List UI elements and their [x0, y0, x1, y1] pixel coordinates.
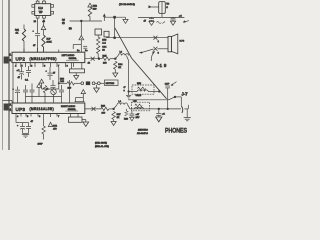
capacitor C52b	[171, 17, 176, 21]
pin pads U51 bottom	[34, 16, 46, 26]
wire page left border inner	[8, 0, 10, 150]
svg-text:(M5218AL5B): (M5218AL5B)	[30, 107, 55, 111]
capacitor C53	[25, 66, 31, 82]
svg-text:CAP: CAP	[165, 83, 170, 86]
pin UP2 left 2	[9, 59, 12, 61]
wire to contact	[74, 82, 81, 84]
resistor R26	[101, 106, 109, 115]
svg-text:100K: 100K	[47, 42, 53, 44]
net label TO DB arrow	[119, 4, 159, 9]
wire jack ring contact	[139, 49, 168, 54]
wire arrow up at end of net A	[103, 13, 106, 21]
ground bars left channel	[126, 95, 131, 98]
svg-text:6-P8: 6-P8	[180, 41, 185, 43]
part number note bottom	[137, 129, 148, 135]
ground under feedback box	[74, 73, 79, 80]
resistor R27 1K	[112, 112, 121, 122]
capacitor C72	[26, 121, 34, 134]
node junction dot C	[113, 36, 116, 39]
inductor block dashed left channel	[132, 83, 154, 94]
wire to node R2	[109, 108, 114, 110]
wire between contacts	[95, 82, 97, 84]
capacitor C54 electrolytic	[46, 67, 57, 80]
pin pads U51 right	[51, 5, 54, 14]
inductor L3	[115, 52, 128, 61]
svg-text:J-1 9: J-1 9	[155, 63, 167, 68]
switch contact circle 3	[97, 82, 100, 85]
wire phones line top	[106, 37, 168, 39]
capacitor C65 above UP3	[59, 85, 64, 97]
pin UP3 left 1	[9, 104, 12, 106]
pin pads U51 left	[32, 5, 35, 14]
relay K41 cylinder	[159, 2, 170, 18]
capacitor C29	[129, 111, 140, 119]
power arrow +B2	[88, 3, 92, 7]
jack contact X top	[153, 36, 157, 40]
jack contact X ring	[153, 47, 157, 51]
svg-text:LEFT AUDIO: LEFT AUDIO	[62, 54, 75, 57]
resistor R24 1K	[114, 61, 123, 73]
transistor Q61	[51, 88, 57, 95]
wire mute row start	[59, 82, 67, 84]
node junction dot P	[158, 108, 160, 110]
feedback box under UP2	[70, 63, 85, 73]
inductor block dashed right channel	[132, 101, 150, 111]
svg-text:+C: +C	[162, 114, 165, 116]
resistor label cluster	[60, 79, 65, 84]
svg-text:100P: 100P	[38, 144, 44, 146]
capacitor CAP right	[165, 82, 177, 88]
jumper staple	[73, 45, 81, 53]
pin UP2 top stubs	[24, 47, 59, 53]
svg-text:MUTING: MUTING	[106, 83, 115, 85]
ground bars under jack	[184, 118, 191, 121]
ground chassis right of net A	[123, 17, 128, 23]
pin pads U51 top	[36, 0, 45, 4]
node junction dot A	[80, 20, 82, 22]
wire phones bottom rail	[130, 108, 181, 110]
wire net A horizontal	[70, 20, 103, 22]
capacitor C55	[51, 80, 56, 87]
resistor R53	[97, 35, 108, 45]
jack speaker symbol	[168, 34, 178, 54]
switch contact circle 2	[92, 82, 95, 85]
wire horizontal under UP2	[42, 88, 59, 90]
node A label	[62, 20, 66, 25]
wire left channel mid	[128, 90, 161, 92]
capacitor C63 above UP3	[23, 85, 28, 97]
net label MUTING box	[105, 80, 119, 86]
resistor R61	[15, 25, 26, 53]
ground under C52b	[170, 21, 175, 25]
wire top right segment	[105, 16, 126, 18]
pin UP3 left 2	[9, 109, 12, 111]
wire vertical from dot B	[114, 17, 116, 38]
switch contact circle 1	[81, 82, 84, 85]
resistor R28	[124, 109, 129, 121]
arrow to jack contact	[151, 51, 155, 61]
IC U51 top-left	[35, 4, 51, 16]
IC UP3	[12, 103, 85, 114]
svg-text:MEGURO: MEGURO	[138, 129, 148, 131]
svg-text:RIGHT AUDIO: RIGHT AUDIO	[61, 105, 75, 108]
capacitor C64 above UP3	[30, 84, 35, 97]
note text bottom middle	[95, 143, 109, 149]
node junction dot L2	[114, 58, 116, 60]
net label pins above UP2	[77, 50, 88, 52]
wire left channel to jack	[128, 96, 181, 106]
resistor R25	[102, 56, 110, 65]
resistor R52 220	[88, 6, 97, 21]
svg-text:(D51: R005): (D51: R005)	[95, 143, 107, 145]
wire to node L2	[110, 58, 115, 60]
resistor R57 22	[67, 82, 74, 90]
connector box A	[95, 29, 102, 35]
svg-text:(TO DB-0047-B): (TO DB-0047-B)	[119, 4, 135, 6]
svg-text:25V: 25V	[136, 117, 140, 119]
capacitor C62 above UP3	[13, 87, 21, 97]
wire UP3 output	[85, 108, 102, 110]
squiggle marks center rail	[157, 22, 166, 24]
svg-text:SIGNAL: SIGNAL	[69, 57, 78, 60]
ground right of feedback box	[82, 120, 89, 127]
capacitor C61	[33, 21, 41, 53]
svg-text:(A): (A)	[69, 27, 72, 30]
svg-text:TH: TH	[166, 3, 169, 5]
power arrow under UP2	[39, 79, 43, 89]
resistor R62 100K	[42, 35, 52, 53]
wire power rail	[138, 16, 184, 18]
svg-text:PHONES: PHONES	[165, 128, 187, 135]
ground under mute row	[94, 85, 100, 93]
wire arrow to muting label	[100, 82, 104, 84]
svg-text:DB-0047-B: DB-0047-B	[137, 132, 148, 135]
ground under C29	[130, 117, 135, 121]
ground under C30	[156, 117, 162, 122]
capacitor C30	[156, 109, 165, 117]
wire left channel down	[128, 61, 130, 95]
inductor L4	[114, 101, 130, 109]
power arrow UP3	[48, 122, 57, 130]
node junction dot L1	[98, 58, 100, 60]
capacitor C51	[144, 17, 155, 22]
svg-text:J-7: J-7	[182, 91, 189, 96]
node junction dot B	[113, 16, 116, 19]
pin stubs into UP3 top	[18, 80, 70, 103]
wire UP2 output	[85, 58, 102, 60]
jack contact X left channel	[91, 57, 95, 61]
power arrow mid	[79, 36, 84, 45]
node connector blob left lower	[4, 104, 9, 111]
svg-text:+C: +C	[17, 70, 20, 72]
resistor R65 above UP3	[43, 86, 48, 97]
ground bars under C71 C72	[22, 134, 29, 138]
svg-text:SIGNAL: SIGNAL	[68, 108, 77, 111]
relay contact block	[86, 81, 90, 85]
ground under C51	[149, 21, 154, 25]
wire bus above UP3	[26, 96, 62, 98]
svg-text:UP3: UP3	[16, 107, 26, 112]
pin UP3 bottom stubs	[16, 114, 60, 127]
svg-text:UL8: UL8	[38, 7, 43, 10]
resistor R54	[97, 46, 108, 59]
node connector blob left upper	[4, 57, 9, 64]
wire vertical left pin run	[12, 63, 14, 103]
svg-text:(4): (4)	[62, 23, 65, 25]
node junction dot jack	[167, 108, 169, 110]
arrow end of rail	[183, 20, 189, 22]
svg-text:UR14: UR14	[136, 94, 142, 97]
capacitor label right	[124, 87, 127, 92]
wire vertical from dot A down	[80, 21, 82, 36]
capacitor small by staple	[83, 46, 87, 48]
ground under R24	[113, 73, 118, 77]
svg-text:TIP: TIP	[39, 11, 43, 14]
power arrow above UP3	[37, 83, 41, 96]
wire page left border outer	[2, 0, 4, 150]
phones jack plug curve	[181, 105, 188, 118]
resistor R73	[38, 126, 46, 146]
svg-text:+C: +C	[179, 16, 182, 18]
capacitor C71	[16, 123, 29, 134]
node junction dot R2	[112, 108, 114, 110]
pin UP2 bottom stubs	[15, 63, 74, 68]
wire jack vertical	[167, 88, 169, 109]
svg-text:UP2: UP2	[16, 57, 26, 62]
power arrow +B	[41, 25, 46, 35]
pin UP2 left 1	[9, 54, 12, 56]
svg-text:BLP: BLP	[47, 39, 52, 41]
power arrow up b	[75, 90, 86, 102]
feedback box under UP3	[69, 114, 83, 123]
wire vertical under UP2 a	[58, 67, 60, 89]
jack contact X right channel	[92, 107, 96, 111]
switch box B	[104, 31, 109, 37]
capacitor C52	[17, 67, 25, 80]
switch lever diagonal	[115, 28, 167, 99]
wire into UP3 top	[3, 100, 13, 103]
svg-text:(M5218AFP5B): (M5218AFP5B)	[30, 57, 57, 61]
IC UP2	[12, 52, 85, 62]
ground under R27	[111, 122, 116, 126]
svg-text:(B51: AL-C05): (B51: AL-C05)	[95, 145, 109, 148]
part number note left	[136, 94, 142, 97]
